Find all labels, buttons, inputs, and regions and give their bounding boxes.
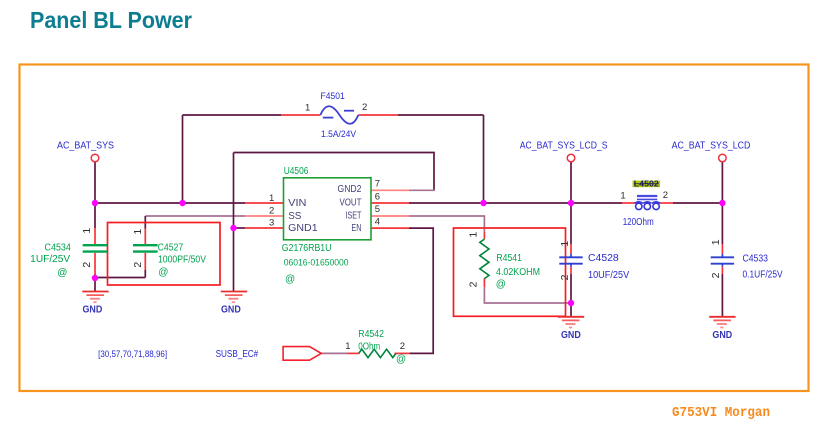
pin stub L4502 pin2 [660,202,673,204]
resistor R4542 zigzag [359,349,396,357]
svg-text:@: @ [496,279,506,290]
svg-text:Panel BL Power: Panel BL Power [30,7,192,33]
wire fuse loop right vertical [483,115,485,203]
svg-text:C4527: C4527 [158,243,184,254]
svg-text:R4542: R4542 [358,329,384,340]
svg-text:1: 1 [269,193,274,204]
node AC_BAT_SYS_LCD_S terminal [567,154,575,162]
wire rail AC_BAT_SYS to VIN [95,202,245,204]
ground symbol at C4534 [82,292,108,303]
wire SUSB_EC# to R4542 [321,352,347,354]
svg-text:R4541: R4541 [496,253,522,264]
svg-text:1: 1 [81,228,93,234]
svg-text:0.1UF/25V: 0.1UF/25V [743,270,783,281]
svg-text:VOUT: VOUT [340,198,362,209]
svg-text:U4506: U4506 [284,166,309,177]
pin stub L4502 pin1 [622,202,635,204]
svg-text:AC_BAT_SYS_LCD: AC_BAT_SYS_LCD [672,140,751,151]
svg-text:2: 2 [132,262,144,268]
pin stub F4501 pin1 [281,114,320,116]
net flag SUSB_EC# [283,347,321,361]
wire C4533 bottom lead [721,264,723,267]
junction at fuse loop left [179,200,185,206]
wire GND2 top loop [234,153,435,191]
svg-text:GND: GND [221,305,241,316]
pin stub R4541 pin2 [483,278,485,287]
svg-text:7: 7 [375,178,380,189]
grouping box around C4527 [108,223,221,286]
wire VOUT rail to L4502 [409,202,622,204]
pin stub ISET pin5 [371,215,409,217]
svg-text:4.02KOHM: 4.02KOHM [496,267,540,278]
svg-text:1000PF/50V: 1000PF/50V [158,254,206,265]
junction at fuse loop right [480,200,486,206]
svg-text:2: 2 [467,281,479,287]
capacitor C4528 plates [559,257,582,263]
svg-text:@: @ [285,274,295,285]
fuse F4501 [320,106,358,124]
svg-text:2: 2 [81,262,93,268]
svg-text:GND2: GND2 [338,184,362,195]
svg-text:SS: SS [288,211,302,222]
svg-text:GND: GND [561,330,581,341]
junction at AC_BAT_SYS rail [92,200,98,206]
node AC_BAT_SYS terminal [91,154,99,162]
svg-text:C4534: C4534 [45,243,72,254]
junction at GND1 node [230,225,236,231]
svg-text:0Ohm: 0Ohm [358,341,380,352]
wire SS net [145,215,245,217]
wire C4528 bottom lead [570,264,572,267]
svg-text:1.5A/24V: 1.5A/24V [321,129,357,140]
svg-text:1UF/25V: 1UF/25V [30,254,70,265]
svg-text:4: 4 [375,216,380,227]
wire GND1 to ground [234,227,246,229]
svg-text:G753VI Morgan: G753VI Morgan [672,406,770,421]
junction at C4534 bottom [92,275,98,281]
svg-text:L4502: L4502 [634,178,659,188]
svg-text:2: 2 [559,274,571,280]
pin stub EN pin4 [371,227,409,229]
svg-text:GND: GND [83,305,103,316]
wire fuse loop left vertical [182,115,184,203]
svg-text:SUSB_EC#: SUSB_EC# [216,349,259,360]
wire C4534 top lead [94,203,96,228]
junction at C4528 bottom [568,300,574,306]
svg-text:[30,57,70,71,88,96]: [30,57,70,71,88,96] [98,349,167,359]
wire C4533 top lead [721,203,723,244]
svg-text:GND1: GND1 [288,223,318,234]
svg-text:EN: EN [351,223,361,234]
svg-text:AC_BAT_SYS: AC_BAT_SYS [57,140,114,151]
svg-text:2: 2 [710,272,722,278]
capacitor C4533 plates [711,257,734,263]
pin stub F4501 pin2 [358,114,398,116]
wire ISET to R4541 [409,216,484,231]
wire R4541 bottom to C4528 [484,287,571,303]
wire EN to R4542 [409,228,433,353]
svg-text:2: 2 [400,341,405,352]
border frame [20,65,809,392]
svg-text:C4528: C4528 [588,253,619,264]
svg-text:1: 1 [132,229,144,235]
wire C4528 top lead [570,203,572,244]
ground symbol at GND1 [221,292,247,303]
svg-text:06016-01650000: 06016-01650000 [284,258,349,269]
svg-text:@: @ [57,267,67,278]
junction at LCD rail [719,200,725,206]
svg-text:6: 6 [375,191,380,202]
pin stub GND2 pin7 [371,189,409,191]
pin stub R4542 pin2 [394,352,409,354]
svg-text:3: 3 [269,218,274,229]
junction at LCD_S rail [568,200,574,206]
op-amp U4506 box [284,178,372,240]
pin stub R4542 pin1 [348,352,360,354]
wire C4527 bottom to C4534 [95,277,145,279]
svg-text:10UF/25V: 10UF/25V [588,270,629,281]
svg-text:@: @ [396,354,406,365]
svg-text:F4501: F4501 [321,91,345,102]
pin stub SS pin2 [245,215,284,217]
svg-text:VIN: VIN [288,198,306,209]
wire GND vertical at 233 [233,153,235,292]
pin stub VIN pin1 [245,202,284,204]
wire AC_BAT_SYS_LCD_S drop [570,162,572,204]
wire C4527 bottom lead [144,253,146,270]
svg-text:ISET: ISET [346,211,362,222]
wire fuse top left segment [183,114,282,116]
svg-text:1: 1 [620,191,625,202]
svg-text:1: 1 [305,103,310,114]
wire C4534 bottom lead [94,253,96,275]
svg-text:2: 2 [362,102,367,113]
svg-text:1: 1 [345,341,350,352]
svg-text:1: 1 [559,241,571,247]
wire C4527 top lead [144,216,146,229]
inductor L4502 [635,196,661,210]
node AC_BAT_SYS_LCD terminal [719,154,727,162]
svg-text:1: 1 [467,232,479,238]
pin stub GND1 pin3 [245,227,284,229]
grouping box around R4541 [454,228,566,316]
pin stub R4541 pin1 [483,231,485,239]
svg-text:G2176RB1U: G2176RB1U [282,243,332,254]
svg-text:5: 5 [375,204,380,215]
wire AC_BAT_SYS_LCD drop [721,162,723,204]
resistor R4541 zigzag [480,239,489,278]
svg-text:AC_BAT_SYS_LCD_S: AC_BAT_SYS_LCD_S [520,140,608,151]
svg-text:GND: GND [712,330,732,341]
svg-text:120Ohm: 120Ohm [623,217,654,228]
wire AC_BAT_SYS drop [94,162,96,204]
capacitor C4534 plates [83,245,108,251]
wire fuse top right segment [398,114,484,116]
svg-text:2: 2 [663,190,668,201]
capacitor C4527 plates [133,245,158,251]
ground symbol at C4528 [558,317,584,328]
pin stub VOUT pin6 [371,202,409,204]
ground symbol at C4533 [709,317,735,328]
svg-text:2: 2 [269,205,274,216]
wire L4502 to AC_BAT_SYS_LCD [673,202,722,204]
svg-text:1: 1 [710,239,722,245]
L4502 highlighted label [633,181,661,188]
svg-text:@: @ [158,267,168,278]
svg-text:C4533: C4533 [743,253,769,264]
